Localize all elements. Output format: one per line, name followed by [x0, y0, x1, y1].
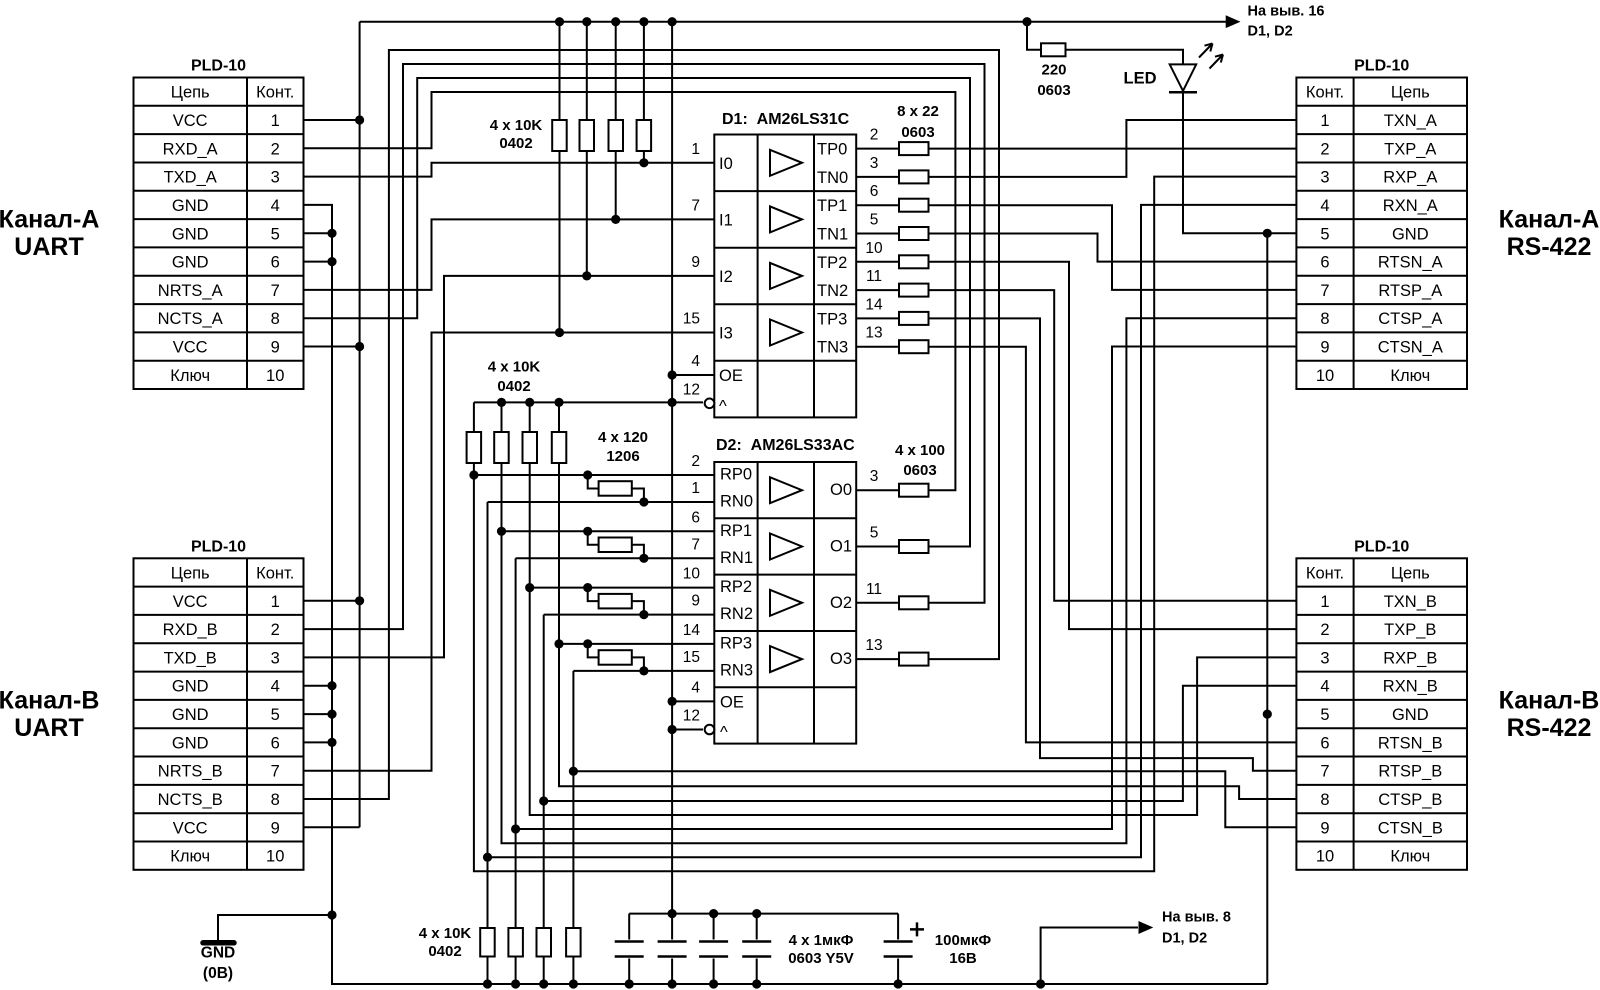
- wire net O3/NCTS_B from D2 output O3 via 100R to UART-B pin8: [304, 50, 1000, 799]
- pin numbers D1 right: [865, 127, 883, 342]
- svg-text:Ключ: Ключ: [170, 848, 210, 866]
- svg-text:(0В): (0В): [203, 965, 233, 982]
- svg-text:Цепь: Цепь: [171, 565, 210, 583]
- wire net RTSN_B from D1 TN3 via 22R to RS422-B pin6: [856, 347, 1296, 743]
- svg-text:TXD_B: TXD_B: [164, 649, 217, 667]
- svg-text:^: ^: [720, 724, 728, 742]
- svg-text:12: 12: [683, 708, 700, 725]
- svg-text:Канал-В: Канал-В: [1499, 686, 1600, 714]
- svg-text:RXD_B: RXD_B: [163, 621, 218, 639]
- svg-text:O3: O3: [830, 650, 852, 668]
- resistor R 10K pull-up column 1 on I3: [559, 22, 561, 333]
- svg-text:100мкФ: 100мкФ: [935, 932, 992, 949]
- wire net RXP_A from RS422-A pin3 to D2 RP0 with 10K pull-up: [474, 177, 1297, 872]
- label Канал-B UART: [0, 686, 99, 742]
- svg-text:LED: LED: [1124, 70, 1157, 88]
- svg-text:TXP_B: TXP_B: [1384, 621, 1436, 639]
- svg-text:10: 10: [683, 566, 701, 583]
- svg-text:0402: 0402: [497, 378, 530, 395]
- svg-text:CTSP_A: CTSP_A: [1378, 310, 1442, 328]
- svg-text:4: 4: [1320, 197, 1329, 215]
- label 100uF 16V: [935, 932, 992, 967]
- wire GND vertical right side: [1266, 233, 1268, 984]
- svg-text:Конт.: Конт.: [1306, 565, 1344, 583]
- svg-text:CTSP_B: CTSP_B: [1378, 791, 1442, 809]
- capacitor C3 1uF leads: [713, 914, 715, 984]
- pin numbers D1 left: [683, 141, 701, 399]
- svg-text:10: 10: [1316, 367, 1334, 385]
- wire net O1/NCTS_A from D2 output O1 via 100R to UART-A pin8: [304, 78, 971, 547]
- svg-text:RN2: RN2: [720, 605, 753, 623]
- svg-text:11: 11: [866, 268, 882, 285]
- ground symbol GND (0B): [201, 943, 235, 982]
- svg-text:RXN_B: RXN_B: [1383, 678, 1438, 696]
- svg-text:На выв. 8: На выв. 8: [1162, 910, 1231, 926]
- resistor group 4x10K 0402 (bottom pull-downs) bodies: [480, 928, 580, 957]
- svg-text:1: 1: [691, 480, 700, 497]
- svg-text:D1, D2: D1, D2: [1248, 24, 1293, 40]
- svg-text:5: 5: [870, 212, 879, 229]
- svg-text:0603: 0603: [901, 124, 934, 141]
- svg-text:GND: GND: [201, 945, 235, 962]
- svg-text:3: 3: [271, 169, 280, 187]
- svg-text:9: 9: [1320, 819, 1329, 837]
- svg-text:0603 Y5V: 0603 Y5V: [788, 950, 854, 967]
- svg-text:Ключ: Ключ: [1390, 848, 1430, 866]
- resistor R 10K pull-up column 2 on I2: [586, 22, 588, 276]
- svg-text:Конт.: Конт.: [256, 84, 294, 102]
- svg-text:6: 6: [1320, 254, 1329, 272]
- wire net RTSP_B from D1 TP3 via 22R to RS422-B pin7: [856, 318, 1296, 770]
- svg-text:PLD-10: PLD-10: [1354, 538, 1409, 555]
- svg-text:TXN_B: TXN_B: [1384, 593, 1437, 611]
- svg-text:9: 9: [1320, 339, 1329, 357]
- svg-text:4 x 10K: 4 x 10K: [419, 925, 472, 942]
- svg-text:Ключ: Ключ: [170, 367, 210, 385]
- svg-text:4 x 120: 4 x 120: [598, 429, 648, 446]
- svg-text:TXD_A: TXD_A: [164, 169, 217, 187]
- pin numbers D2 right: [865, 468, 882, 654]
- svg-text:0402: 0402: [428, 943, 461, 960]
- svg-text:220: 220: [1041, 62, 1066, 79]
- svg-text:GND: GND: [1392, 225, 1429, 243]
- svg-text:3: 3: [870, 155, 879, 172]
- wire VCC/OE vertical to enable pins and cap rail: [672, 22, 714, 914]
- label 4x10K 0402 (bottom): [419, 925, 472, 960]
- svg-text:GND: GND: [172, 254, 209, 272]
- wire net RXN_B from RS422-B pin4 to D2 RN2 with 10K pull-down: [544, 615, 1297, 984]
- svg-text:6: 6: [271, 734, 280, 752]
- svg-text:NCTS_A: NCTS_A: [158, 310, 223, 328]
- capacitor plates C1-C4: [615, 942, 772, 957]
- svg-text:11: 11: [866, 581, 882, 598]
- svg-text:D2: AM26LS33AC: D2: AM26LS33AC: [716, 437, 855, 454]
- svg-text:RN1: RN1: [720, 549, 753, 567]
- svg-text:9: 9: [271, 819, 280, 837]
- wire net TXN_A from D1 TN0 via 22R to RS422-A pin1: [856, 120, 1296, 177]
- svg-text:NRTS_A: NRTS_A: [158, 282, 223, 300]
- wire net CTSP_B from RS422-B pin8 to D2 RP3 with 10K pull-up: [559, 402, 1296, 799]
- svg-text:GND: GND: [1392, 706, 1429, 724]
- svg-text:4 х 1мкФ: 4 х 1мкФ: [789, 932, 854, 949]
- resistor 220 0603 body: [1041, 43, 1066, 56]
- svg-text:RXN_A: RXN_A: [1383, 197, 1438, 215]
- wire 220R/LED branch from VCC rail to RS422-A pin5 GND: [1027, 22, 1183, 65]
- svg-text:GND: GND: [172, 734, 209, 752]
- wire net CTSN_A from RS422-A pin9 to D2 RN1 with 10K pull-down: [516, 347, 1297, 985]
- svg-text:O1: O1: [830, 538, 852, 556]
- svg-text:4: 4: [691, 353, 700, 370]
- svg-text:4 x 100: 4 x 100: [895, 442, 945, 459]
- svg-text:2: 2: [271, 621, 280, 639]
- svg-text:RTSP_B: RTSP_B: [1378, 763, 1442, 781]
- svg-text:6: 6: [870, 183, 879, 200]
- svg-text:4: 4: [271, 678, 280, 696]
- svg-text:9: 9: [691, 254, 700, 271]
- svg-text:15: 15: [683, 649, 700, 666]
- svg-text:5: 5: [1320, 225, 1329, 243]
- label 8x22 0603: [897, 103, 939, 141]
- svg-text:9: 9: [271, 339, 280, 357]
- svg-text:GND: GND: [172, 197, 209, 215]
- svg-text:0402: 0402: [499, 135, 532, 152]
- receiver IC D2 AM26LS33AC: [714, 437, 856, 744]
- wire net NRTS_A from UART-A pin7 to D1 input I1: [304, 219, 715, 290]
- svg-text:2: 2: [691, 453, 700, 470]
- svg-text:16В: 16В: [949, 950, 977, 967]
- svg-text:VCC: VCC: [173, 112, 208, 130]
- label 4x10K 0402 (top): [490, 117, 543, 152]
- svg-text:TN1: TN1: [817, 226, 848, 244]
- svg-text:Цепь: Цепь: [1391, 565, 1430, 583]
- svg-text:0603: 0603: [903, 462, 936, 479]
- label Канал-B RS-422: [1499, 686, 1600, 742]
- svg-text:NRTS_B: NRTS_B: [158, 763, 223, 781]
- wire net O0/RXD_A from D2 output O0 via 100R to UART-A pin2: [304, 92, 956, 490]
- wire 4x10K mid rail (pin 12 net of D1): [474, 401, 703, 403]
- svg-text:VCC: VCC: [173, 339, 208, 357]
- svg-text:6: 6: [271, 254, 280, 272]
- svg-text:Канал-В: Канал-В: [0, 686, 99, 714]
- svg-text:TN0: TN0: [817, 169, 848, 187]
- svg-text:8: 8: [271, 791, 280, 809]
- label Канал-A UART: [0, 206, 99, 262]
- svg-text:GND: GND: [172, 706, 209, 724]
- svg-text:5: 5: [1320, 706, 1329, 724]
- svg-text:8: 8: [1320, 310, 1329, 328]
- svg-text:2: 2: [1320, 140, 1329, 158]
- svg-text:1206: 1206: [606, 448, 639, 465]
- connector table XS1 PLD-10 Канал-A UART: [134, 58, 304, 390]
- svg-text:O2: O2: [830, 594, 852, 612]
- wire net RXN_A from RS422-A pin4 to D2 RN0 with 10K pull-down: [488, 205, 1297, 984]
- svg-text:RP1: RP1: [720, 522, 752, 540]
- svg-text:3: 3: [870, 468, 879, 485]
- svg-text:TN3: TN3: [817, 339, 848, 357]
- svg-text:13: 13: [865, 637, 882, 654]
- svg-text:RP0: RP0: [720, 466, 752, 484]
- wire net TXD_B from UART-B pin3 to D1 input I2: [304, 276, 715, 658]
- svg-text:RN3: RN3: [720, 661, 753, 679]
- wire net TXD_A from UART-A pin3 to D1 input I0: [304, 163, 715, 177]
- svg-text:1: 1: [1320, 112, 1329, 130]
- svg-text:2: 2: [271, 140, 280, 158]
- capacitor C2 1uF leads: [671, 914, 673, 984]
- resistor group 4x100 0603 bodies: [899, 484, 929, 666]
- wire VCC vertical with taps to VCC pins of connectors: [304, 22, 360, 828]
- svg-text:NCTS_B: NCTS_B: [158, 791, 223, 809]
- svg-text:PLD-10: PLD-10: [1354, 58, 1409, 75]
- LED symbol: [1169, 44, 1223, 93]
- wire net RTSN_A from D1 TN1 via 22R to RS422-A pin6: [856, 234, 1296, 262]
- wire net CTSP_A from RS422-A pin8 to D2 RP1 with 10K pull-up: [502, 318, 1297, 843]
- inverter bubble pin 12 D2: [705, 725, 715, 735]
- svg-text:6: 6: [1320, 734, 1329, 752]
- svg-text:TN2: TN2: [817, 282, 848, 300]
- svg-text:VCC: VCC: [173, 819, 208, 837]
- svg-text:4: 4: [271, 197, 280, 215]
- label 4x100 0603: [895, 442, 945, 479]
- svg-text:5: 5: [271, 225, 280, 243]
- svg-text:I2: I2: [719, 268, 733, 286]
- svg-text:8: 8: [271, 310, 280, 328]
- svg-text:Цепь: Цепь: [171, 84, 210, 102]
- svg-text:1: 1: [271, 593, 280, 611]
- svg-text:RXD_A: RXD_A: [163, 140, 218, 158]
- svg-text:7: 7: [271, 763, 280, 781]
- label На выв. 8 D1, D2: [1162, 910, 1231, 947]
- svg-text:10: 10: [865, 240, 883, 257]
- resistor R 10K pull-up column 4 on I0: [643, 22, 645, 163]
- svg-text:4: 4: [691, 679, 700, 696]
- svg-text:GND: GND: [172, 225, 209, 243]
- svg-text:RTSP_A: RTSP_A: [1378, 282, 1442, 300]
- svg-text:На выв. 16: На выв. 16: [1248, 4, 1325, 20]
- wire net TXN_B from D1 TN2 via 22R to RS422-B pin1: [856, 290, 1296, 601]
- svg-text:Канал-А: Канал-А: [0, 206, 99, 234]
- wire bypass cap VCC rail: [629, 913, 898, 915]
- svg-text:4: 4: [1320, 678, 1329, 696]
- svg-text:Канал-А: Канал-А: [1499, 206, 1600, 234]
- svg-text:OE: OE: [719, 367, 743, 385]
- svg-text:4 x 10K: 4 x 10K: [488, 359, 541, 376]
- label 4x120 1206: [598, 429, 648, 465]
- svg-text:RXP_B: RXP_B: [1383, 649, 1437, 667]
- wire net RTSP_A from D1 TP1 via 22R to RS422-A pin7: [856, 205, 1296, 290]
- label Канал-A RS-422: [1499, 206, 1600, 262]
- svg-text:Конт.: Конт.: [256, 565, 294, 583]
- svg-text:^: ^: [719, 397, 727, 415]
- resistor group 8x22 0603 bodies: [899, 142, 929, 353]
- svg-text:5: 5: [271, 706, 280, 724]
- label 4x1uF 0603 Y5V: [788, 932, 854, 967]
- svg-text:5: 5: [870, 525, 879, 542]
- svg-text:2: 2: [870, 127, 879, 144]
- svg-text:RTSN_B: RTSN_B: [1378, 734, 1443, 752]
- capacitor C5 100uF plates and +: [884, 922, 924, 956]
- svg-text:10: 10: [1316, 848, 1334, 866]
- svg-text:D1: AM26LS31C: D1: AM26LS31C: [722, 111, 850, 128]
- svg-text:15: 15: [683, 311, 700, 328]
- svg-text:RS-422: RS-422: [1507, 714, 1592, 742]
- svg-text:3: 3: [1320, 169, 1329, 187]
- wire net CTSN_B from RS422-B pin9 to D2 RN3 with 10K pull-down: [573, 671, 1296, 984]
- capacitor C5 100uF leads: [897, 914, 899, 984]
- svg-text:Конт.: Конт.: [1306, 84, 1344, 102]
- svg-text:TP3: TP3: [817, 310, 847, 328]
- svg-text:RTSN_A: RTSN_A: [1378, 254, 1443, 272]
- resistor R 10K pull-up column 3 on I1: [615, 22, 617, 220]
- svg-text:7: 7: [691, 536, 700, 553]
- wire net O2/RXD_B from D2 output O2 via 100R to UART-B pin2: [304, 64, 985, 629]
- connector table XS3 PLD-10 Канал-A RS-422: [1296, 58, 1467, 390]
- svg-text:1: 1: [1320, 593, 1329, 611]
- label 220 0603: [1037, 62, 1070, 100]
- svg-text:9: 9: [691, 593, 700, 610]
- svg-text:RN0: RN0: [720, 493, 753, 511]
- svg-text:7: 7: [1320, 282, 1329, 300]
- wire net NRTS_B from UART-B pin7 to D1 input I3: [304, 333, 715, 771]
- svg-text:TP1: TP1: [817, 197, 847, 215]
- svg-text:TP2: TP2: [817, 254, 847, 272]
- svg-text:2: 2: [1320, 621, 1329, 639]
- svg-text:7: 7: [1320, 763, 1329, 781]
- svg-text:GND: GND: [172, 678, 209, 696]
- wire net RXP_B from RS422-B pin3 to D2 RP2 with 10K pull-up: [530, 402, 1297, 815]
- svg-text:14: 14: [865, 296, 883, 313]
- capacitor C4 1uF leads: [756, 914, 758, 984]
- termination resistor 120R pair 2 connection: [588, 588, 644, 615]
- svg-text:O0: O0: [830, 481, 852, 499]
- svg-text:RP3: RP3: [720, 634, 752, 652]
- svg-text:Ключ: Ключ: [1390, 367, 1430, 385]
- svg-text:UART: UART: [14, 714, 83, 742]
- svg-text:7: 7: [691, 197, 700, 214]
- wire net TXP_B from D1 TP2 via 22R to RS422-B pin2: [856, 262, 1296, 629]
- svg-text:13: 13: [865, 325, 882, 342]
- capacitor C1 1uF leads: [628, 914, 630, 984]
- connector table XS4 PLD-10 Канал-B RS-422: [1296, 538, 1467, 870]
- resistor group 4x10K 0402 (mid pull-ups) bodies: [467, 432, 567, 463]
- wire VCC top rail to pin 16 of D1,D2: [360, 16, 1240, 27]
- svg-text:RXP_A: RXP_A: [1383, 169, 1437, 187]
- svg-text:RS-422: RS-422: [1507, 233, 1592, 261]
- svg-text:RP2: RP2: [720, 578, 752, 596]
- svg-text:12: 12: [683, 381, 700, 398]
- label 4x10K 0402 (mid): [488, 359, 541, 396]
- resistor group 4x10K 0402 (top pull-ups) bodies: [552, 120, 651, 151]
- svg-text:3: 3: [1320, 649, 1329, 667]
- svg-text:D1, D2: D1, D2: [1162, 931, 1207, 947]
- svg-text:PLD-10: PLD-10: [191, 538, 246, 555]
- svg-text:1: 1: [691, 141, 700, 158]
- wire GND vertical, GND taps and bottom GND rail: [218, 205, 1267, 984]
- wire net TXP_A from D1 TP0 via 22R to RS422-A pin2: [856, 148, 1296, 150]
- svg-text:10: 10: [266, 848, 284, 866]
- svg-text:8: 8: [1320, 791, 1329, 809]
- svg-text:Цепь: Цепь: [1391, 84, 1430, 102]
- svg-text:10: 10: [266, 367, 284, 385]
- svg-text:I3: I3: [719, 325, 733, 343]
- svg-text:0603: 0603: [1037, 82, 1070, 99]
- svg-text:1: 1: [271, 112, 280, 130]
- svg-text:7: 7: [271, 282, 280, 300]
- svg-text:VCC: VCC: [173, 593, 208, 611]
- resistor group 4x120 1206 termination bodies: [599, 481, 632, 665]
- svg-text:TXN_A: TXN_A: [1384, 112, 1437, 130]
- label На выв. 16 D1, D2: [1248, 4, 1325, 40]
- svg-text:TP0: TP0: [817, 141, 847, 159]
- op-amp / driver IC D1 AM26LS31C: [714, 111, 856, 417]
- pin numbers D2 left: [683, 453, 701, 725]
- svg-text:8 x 22: 8 x 22: [897, 103, 939, 120]
- svg-text:CTSN_A: CTSN_A: [1378, 339, 1443, 357]
- termination resistor 120R pair 0 connection: [588, 475, 644, 502]
- svg-text:TXP_A: TXP_A: [1384, 140, 1436, 158]
- svg-text:I0: I0: [719, 155, 733, 173]
- svg-text:14: 14: [683, 622, 701, 639]
- termination resistor 120R pair 3 connection: [588, 644, 644, 671]
- svg-text:4 x 10K: 4 x 10K: [490, 117, 543, 134]
- termination resistor 120R pair 1 connection: [588, 531, 644, 558]
- svg-text:I1: I1: [719, 211, 733, 229]
- svg-text:3: 3: [271, 649, 280, 667]
- inverter bubble pin 12 D1: [705, 399, 715, 409]
- svg-text:UART: UART: [14, 233, 83, 261]
- wire to pin 8 of D1,D2 with arrow: [1041, 922, 1152, 984]
- svg-text:CTSN_B: CTSN_B: [1378, 819, 1443, 837]
- svg-text:OE: OE: [720, 693, 744, 711]
- svg-text:PLD-10: PLD-10: [191, 58, 246, 75]
- connector table XS2 PLD-10 Канал-B UART: [134, 538, 304, 870]
- svg-text:6: 6: [691, 509, 700, 526]
